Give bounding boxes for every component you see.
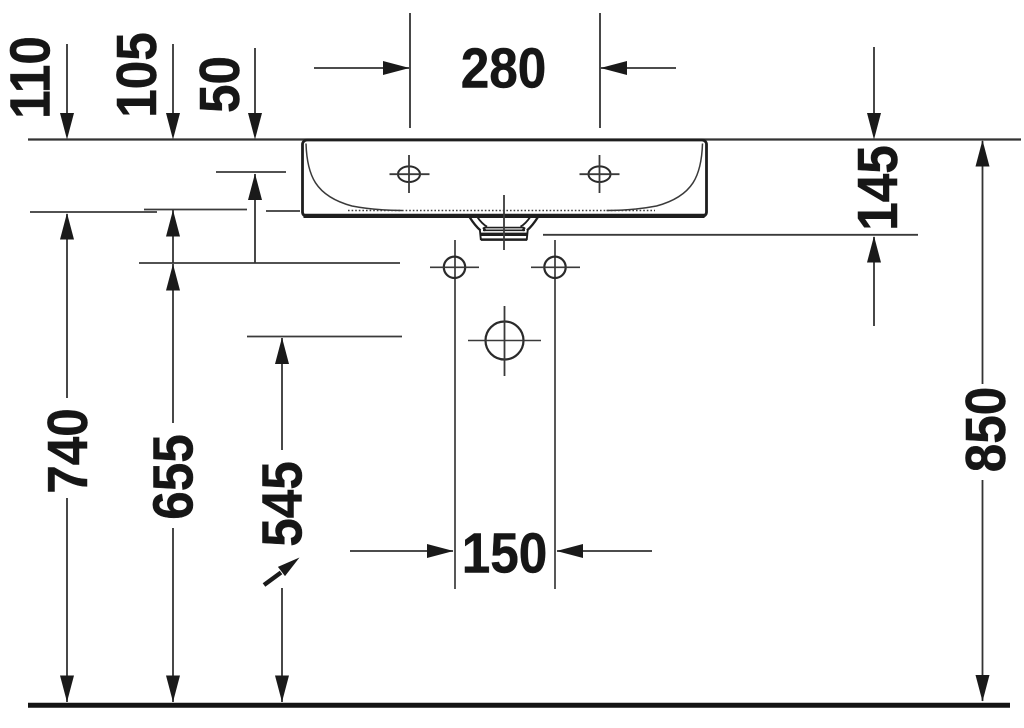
reference line B 110 lower ref [30, 211, 157, 213]
dimension 145 extension line [873, 47, 875, 136]
dimension 850 line upper [982, 141, 984, 384]
reference line C 655 upper ref [139, 262, 400, 264]
svg-text:50: 50 [188, 56, 251, 113]
dimension 105 extension line [172, 44, 174, 136]
dimension 740 down arrow [60, 676, 74, 703]
faucet hole left [398, 166, 420, 182]
dimension 50 bottom arrow [248, 174, 262, 201]
dimension 280 right arrow [601, 61, 628, 75]
dimension 280 left arrow [383, 61, 410, 75]
dimension 850 line lower [982, 480, 984, 701]
dimension 150 right arrow [557, 544, 584, 558]
dimension 150 right arrow line [557, 550, 652, 552]
drain right lip outer curve [527, 217, 538, 230]
reference line B3 left of basin [266, 210, 300, 212]
drain left lip outer curve [470, 217, 481, 230]
drain left lip inner curve [477, 217, 487, 227]
dimension 50 top arrow [248, 113, 262, 140]
dimension 850 up arrow [976, 140, 990, 167]
mounting hole axis line right [554, 240, 556, 589]
faucet hole left crosshair vertical [408, 155, 410, 193]
dimension 545 down arrow [275, 676, 289, 703]
mounting hole right [544, 257, 565, 278]
floor line [28, 703, 1010, 708]
svg-text:740: 740 [36, 408, 99, 494]
washbasin outer body [303, 140, 707, 217]
dimension 740 line lower [66, 498, 68, 702]
reference line D 50 lower ref [216, 171, 286, 173]
drain thread band left cap [483, 227, 485, 231]
dimension 105 bottom arrow line [172, 210, 174, 263]
drain cup left side [480, 230, 481, 240]
dimension 280 right arrow line [601, 67, 676, 69]
dimension 655 line upper [172, 264, 174, 423]
dimension 150 left arrow [427, 544, 454, 558]
dimension 50 extension line [254, 48, 256, 136]
svg-text:545: 545 [251, 461, 314, 547]
svg-text:655: 655 [142, 434, 205, 520]
drain pipe hole crosshair vertical [504, 306, 506, 376]
dimension 545 line lower [281, 588, 283, 702]
drain gasket band [481, 233, 528, 236]
dimension 740 up arrow [60, 213, 74, 240]
545 oblique arrow head [278, 558, 300, 577]
drain pipe hole [486, 322, 524, 360]
dimension 105 bottom arrow [166, 210, 180, 237]
dimension 655 up arrow [166, 264, 180, 291]
basin interior bottom dotted line [348, 210, 655, 212]
mounting hole axis line left [454, 240, 456, 589]
dimension 150 left arrow line [350, 550, 453, 552]
dimension 50 bottom arrow line [254, 174, 256, 263]
dimension 740 line upper [66, 214, 68, 398]
dimension 280 left arrow line [314, 67, 409, 69]
dimension 280 extension line right [599, 13, 601, 128]
reference line F 145 lower ref [543, 234, 918, 236]
545 oblique arrow shaft [264, 573, 281, 586]
drain thread line 1 [484, 227, 524, 229]
mounting hole right crosshair horizontal [531, 266, 580, 268]
reference line A top of basin [28, 138, 1021, 140]
dimension 280 extension line left [409, 13, 411, 128]
drain centerline [503, 195, 505, 250]
dimension 110 extension line [66, 44, 68, 136]
basin interior left curve [306, 144, 402, 211]
svg-text:150: 150 [462, 522, 548, 585]
reference line E 545 upper ref [247, 336, 402, 338]
drain pipe hole crosshair horizontal [468, 340, 541, 342]
faucet hole right crosshair horizontal [580, 173, 620, 175]
svg-text:105: 105 [105, 32, 168, 118]
dimension 655 line lower [172, 528, 174, 702]
svg-text:280: 280 [461, 37, 547, 100]
faucet hole right crosshair vertical [599, 155, 601, 193]
drain cup bottom edge [481, 238, 527, 241]
dimension 105 top arrow [166, 113, 180, 140]
dimension 145 bottom arrow [867, 236, 881, 263]
faucet hole right [589, 166, 611, 182]
svg-text:850: 850 [954, 387, 1017, 473]
washbasin bottom edge [304, 214, 705, 218]
basin interior right curve [607, 144, 703, 211]
drain right lip inner curve [521, 217, 531, 227]
drain cup right side [527, 230, 528, 240]
faucet hole left crosshair horizontal [390, 173, 430, 175]
mounting hole left [444, 257, 465, 278]
svg-text:110: 110 [0, 36, 62, 119]
drain thread line 2 [483, 229, 525, 231]
reference line B2 105 lower ref [144, 209, 247, 211]
dimension 545 line upper [281, 338, 283, 450]
mounting hole left crosshair horizontal [430, 266, 479, 268]
drain thread band right cap [522, 227, 524, 231]
dimension 110 top arrow [60, 113, 74, 140]
dimension 850 down arrow [976, 675, 990, 702]
dimension 145 top arrow [867, 113, 881, 140]
dimension 655 down arrow [166, 676, 180, 703]
svg-text:145: 145 [846, 145, 909, 231]
dimension 145 bottom arrow line [873, 237, 875, 326]
dimension 545 up arrow [275, 338, 289, 365]
